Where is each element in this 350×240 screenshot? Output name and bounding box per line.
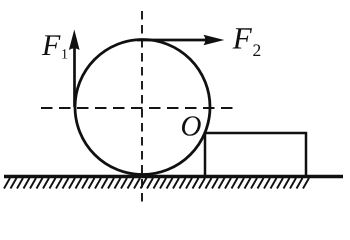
ground hatching (4, 178, 309, 189)
svg-text:2: 2 (253, 40, 262, 60)
vertical dashed center line (141, 11, 143, 206)
ground line (4, 175, 343, 178)
horizontal dashed center line (41, 107, 235, 109)
svg-text:F: F (41, 29, 61, 62)
block (rectangle) on ground (205, 133, 306, 176)
force arrow F1 shaft (73, 47, 76, 107)
svg-text:O: O (181, 110, 202, 142)
circle (ball) (75, 40, 210, 175)
svg-text:F: F (232, 21, 253, 56)
force arrow F2 head (204, 35, 225, 46)
force arrow F2 shaft (137, 39, 207, 42)
svg-text:1: 1 (61, 48, 68, 63)
force arrow F1 head (69, 30, 80, 51)
